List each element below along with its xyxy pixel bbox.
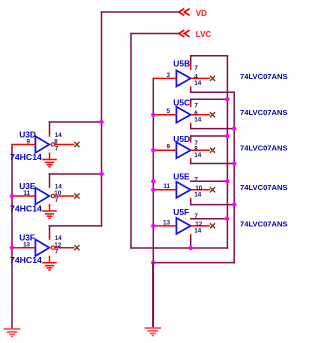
inverter U3E (74HC14) [35,188,49,205]
buffer U5D (74LVC07) [176,142,190,158]
wire U5B pin-7 top run [191,55,228,57]
svg-text:74LVC07ANS: 74LVC07ANS [240,183,288,192]
svg-text:VD: VD [196,9,207,18]
no-connect X on U5F output [210,223,215,228]
junction input bus / pin-14 chain [151,260,155,264]
U3F pin-7 stub to ground [49,256,51,263]
svg-text:7: 7 [194,65,198,72]
junction pin-14 chain / U5E [232,202,236,206]
wire U5F pin-14 drop to LVC run [190,234,192,237]
junction left bus / U3F input [10,246,14,250]
svg-text:U5D: U5D [173,134,190,144]
junction VD / U3D loop [99,120,103,124]
U3F output pin wire [55,247,74,249]
svg-text:U5E: U5E [173,172,190,182]
no-connect X on U3E output [74,193,79,198]
U3E output pin wire [55,195,74,197]
junction pin-7 chain / U5C [225,97,229,101]
wire U3E pin-14 loop to VD [50,173,102,175]
junction input bus / U5E input [151,188,155,192]
U5F output pin wire [191,225,210,227]
svg-text:5: 5 [166,108,170,115]
buffer U5E (74LVC07) [176,182,190,198]
inverter U3F (74HC14) [35,239,49,256]
U3D output bubble [51,143,54,146]
svg-text:74HC14: 74HC14 [10,204,42,214]
junction U5F pin-14 / LVC run [189,246,193,250]
no-connect X on U5C output [210,112,215,117]
wire U3F pin-14 loop to VD [50,225,102,227]
no-connect X on U3F output [74,245,79,250]
U5E output pin wire [191,189,210,191]
svg-text:U5C: U5C [173,98,190,108]
junction input bus / U5C input [151,113,155,117]
svg-text:13: 13 [163,219,171,226]
power port LVC [179,30,212,39]
wire LVC bottom run to pin-7 chain [131,247,227,249]
wire pin-14 chain vertical [233,92,235,262]
svg-text:74LVC07ANS: 74LVC07ANS [240,108,288,117]
wire LVC horizontal [131,33,179,35]
wire U5E pin-7 run [191,180,228,182]
svg-text:7: 7 [194,213,198,220]
svg-text:LVC: LVC [196,30,212,39]
ground symbol bottom center [152,263,154,328]
svg-text:74HC14: 74HC14 [10,152,42,162]
junction pin-14 chain / U5D [232,161,236,165]
svg-text:74HC14: 74HC14 [10,255,42,265]
wire U5C pin-14 run [190,123,192,126]
svg-text:7: 7 [194,176,198,183]
svg-text:74LVC07ANS: 74LVC07ANS [240,144,288,153]
svg-text:14: 14 [194,80,202,87]
wire pin-14 chain bottom run [153,262,234,264]
U3E input pin wire [12,195,35,197]
junction pin-7 chain / U5F [225,217,229,221]
svg-text:14: 14 [194,116,202,123]
junction VD / U3E loop [100,172,104,176]
U3E pin-7 stub to ground [49,204,51,211]
junction left bus / U3E input [10,194,14,198]
wire VD vertical bus [101,12,103,226]
ground symbol at U3F pin 7 [42,262,57,264]
U3F input pin wire [12,247,35,249]
junction input bus (stray) [151,179,155,183]
wire U5B pin-7 stub [190,56,192,63]
svg-text:13: 13 [23,242,31,249]
wire input bus vertical [152,78,154,327]
ground symbol at U3E pin 7 [42,210,57,212]
wire U5E pin-14 run [190,198,192,201]
U5B input pin wire [153,77,176,79]
no-connect X on U5B output [210,76,215,81]
svg-text:3: 3 [166,72,170,79]
svg-text:9: 9 [166,144,170,151]
U3D pin-7 stub to ground [49,153,51,160]
junction input bus / U5F input [151,224,155,228]
wire U5D pin-7 run [191,135,228,137]
wire U5C pin-7 run [191,98,228,100]
svg-text:74LVC07ANS: 74LVC07ANS [240,72,288,81]
ground symbol bottom left [4,328,21,330]
U5D output pin wire [191,149,210,151]
svg-text:11: 11 [23,190,30,197]
power port VD [179,9,207,18]
U3D input pin wire [12,144,35,146]
wire LVC vertical [130,34,132,249]
wire VD horizontal [102,11,179,13]
svg-text:14: 14 [194,152,202,159]
wire pin-7 chain vertical [226,56,228,248]
svg-text:7: 7 [55,145,59,152]
U3D output pin wire [55,144,74,146]
U3F output bubble [51,246,54,249]
inverter U3D (74HC14) [35,136,49,153]
U5D input pin wire [153,149,176,151]
junction input bus / U5D input [151,148,155,152]
ground symbol at U3D pin 7 [42,159,57,161]
svg-text:7: 7 [55,197,59,204]
U5E input pin wire [153,189,176,191]
wire U5D pin-14 run [190,158,192,161]
svg-text:14: 14 [194,192,202,199]
svg-text:74LVC07ANS: 74LVC07ANS [240,219,288,228]
no-connect X on U5D output [210,148,215,153]
no-connect X on U3D output [74,142,79,147]
svg-text:11: 11 [163,183,170,190]
wire U5B pin-14 run [190,87,192,91]
buffer U5B (74LVC07) [176,70,190,86]
U3E output bubble [51,194,54,197]
svg-text:U5F: U5F [173,207,189,217]
svg-text:9: 9 [26,139,30,146]
wire U5F pin-7 run [191,218,228,220]
U5F input pin wire [153,225,176,227]
U5C input pin wire [153,114,176,116]
buffer U5F (74LVC07) [176,218,190,234]
buffer U5C (74LVC07) [176,107,190,123]
svg-text:U5B: U5B [173,59,190,69]
wire left input bus vertical [11,145,13,329]
U5C output pin wire [191,114,210,116]
junction pin-7 chain / U5D [225,134,229,138]
svg-text:7: 7 [194,103,198,110]
U5B output pin wire [191,77,210,79]
junction pin-14 chain / U5C [232,126,236,130]
svg-text:7: 7 [55,249,59,256]
junction pin-7 chain / U5E [225,179,229,183]
no-connect X on U5E output [210,187,215,192]
svg-text:14: 14 [194,228,202,235]
wire U3D pin-14 loop to VD [50,121,102,123]
